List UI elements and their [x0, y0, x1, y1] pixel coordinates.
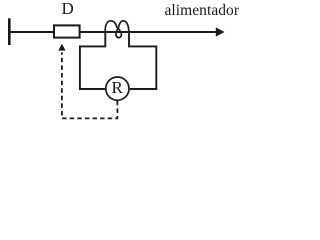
svg-text:D: D: [62, 0, 74, 18]
svg-text:R: R: [112, 78, 124, 97]
svg-text:alimentador: alimentador: [165, 2, 240, 19]
